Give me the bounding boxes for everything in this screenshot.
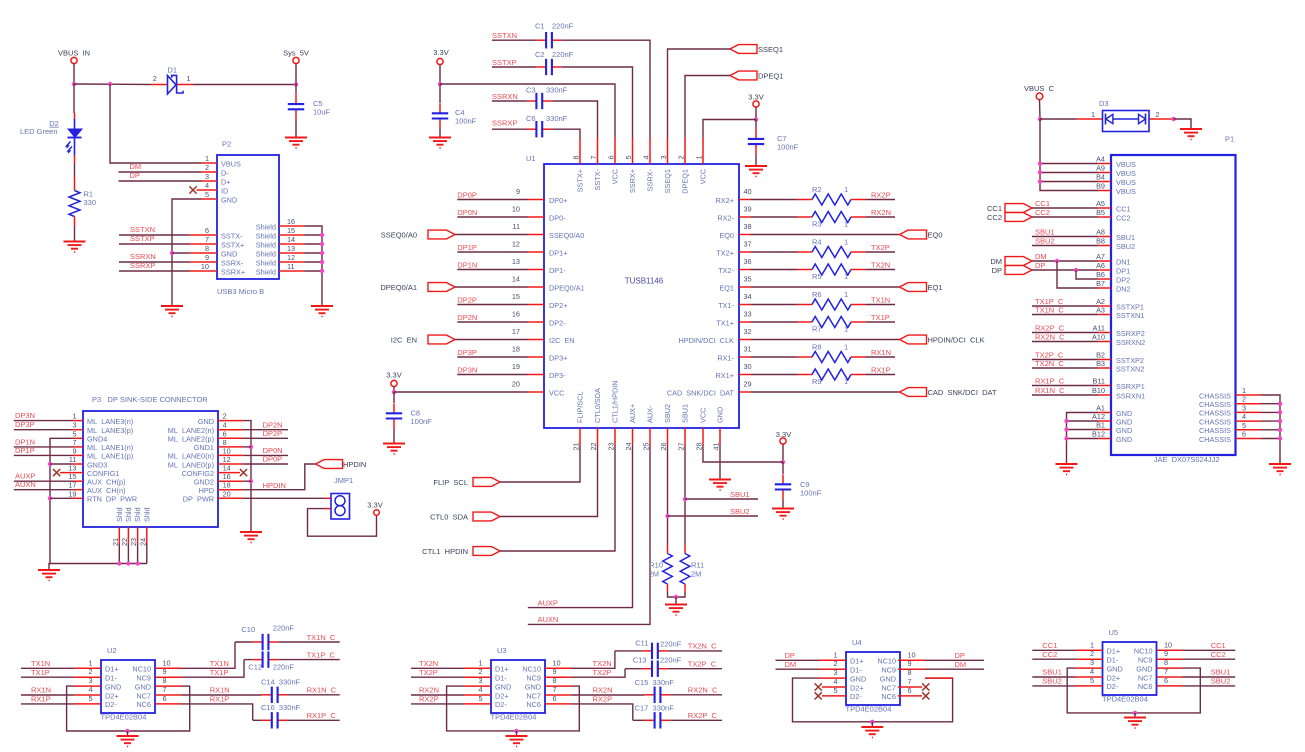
wire bbox=[500, 445, 580, 482]
svg-text:Shld: Shld bbox=[124, 507, 133, 522]
power port VBUS_C bbox=[1036, 93, 1043, 100]
wire bbox=[866, 199, 895, 201]
wire bbox=[755, 154, 757, 166]
svg-text:U2: U2 bbox=[107, 646, 117, 655]
wire bbox=[49, 564, 50, 571]
wire bbox=[1067, 420, 1099, 422]
svg-text:CC2: CC2 bbox=[1042, 650, 1057, 659]
svg-text:B12: B12 bbox=[1092, 430, 1105, 439]
svg-text:A6: A6 bbox=[1096, 261, 1105, 270]
wire bbox=[411, 694, 464, 696]
junction bbox=[72, 82, 76, 86]
svg-text:NC6: NC6 bbox=[881, 692, 896, 701]
P2 pin 11 Shield bbox=[279, 270, 304, 272]
svg-text:B6: B6 bbox=[1096, 270, 1105, 279]
P1 pin B11 SSRXP1 bbox=[1098, 385, 1111, 387]
wire bbox=[751, 339, 900, 341]
svg-text:11: 11 bbox=[287, 262, 295, 271]
svg-text:15: 15 bbox=[287, 226, 295, 235]
resistor R5 bbox=[797, 269, 812, 271]
svg-text:D1-: D1- bbox=[105, 674, 117, 683]
svg-text:35: 35 bbox=[744, 275, 752, 284]
svg-text:SSTXP: SSTXP bbox=[130, 234, 155, 243]
svg-text:VBUS: VBUS bbox=[1116, 169, 1136, 178]
wire P2 GND bbox=[172, 199, 202, 306]
flag HPDIN bbox=[316, 460, 343, 469]
wire bbox=[193, 84, 296, 86]
pin stub bbox=[545, 667, 572, 669]
wire bbox=[1032, 245, 1098, 247]
pin stub bbox=[464, 667, 491, 669]
svg-text:NC7: NC7 bbox=[1138, 673, 1153, 682]
svg-text:HPDIN: HPDIN bbox=[263, 481, 286, 490]
junction bbox=[125, 729, 129, 733]
svg-text:TX1P: TX1P bbox=[31, 668, 50, 677]
svg-text:R5: R5 bbox=[812, 272, 822, 281]
wire bbox=[925, 668, 984, 670]
svg-text:R3: R3 bbox=[812, 220, 822, 229]
junction bbox=[48, 462, 52, 466]
svg-text:RX1N: RX1N bbox=[210, 686, 230, 695]
svg-text:NC6: NC6 bbox=[136, 700, 151, 709]
U1 pin 29 CAD SNK/DCI DAT (right) bbox=[739, 391, 751, 393]
svg-text:SSEQ1: SSEQ1 bbox=[758, 45, 783, 54]
svg-text:C6: C6 bbox=[526, 114, 536, 123]
wire bbox=[1134, 713, 1136, 718]
flag DPEQ1 bbox=[730, 71, 757, 80]
wire P3 gnd bus bbox=[50, 438, 147, 563]
svg-text:Shield: Shield bbox=[256, 258, 276, 267]
svg-text:CTL1 HPDIN: CTL1 HPDIN bbox=[422, 547, 468, 556]
pin stub bbox=[1076, 685, 1103, 687]
wire U2 gnd bbox=[67, 686, 190, 731]
wire SSTXN bbox=[119, 234, 190, 236]
svg-text:34: 34 bbox=[744, 292, 752, 301]
ground bbox=[161, 305, 183, 307]
svg-text:RX2+: RX2+ bbox=[716, 196, 734, 205]
ground bbox=[1124, 717, 1146, 719]
svg-text:DP3N: DP3N bbox=[15, 411, 35, 420]
P3 pin 10 ML LANE0(n) bbox=[218, 454, 244, 456]
svg-text:RX1P: RX1P bbox=[210, 695, 230, 704]
wire bbox=[1040, 163, 1098, 165]
U1 pin 13 DP1- (left) bbox=[528, 269, 545, 271]
junction bbox=[1278, 410, 1282, 414]
wire bbox=[572, 651, 615, 668]
svg-text:1: 1 bbox=[844, 238, 848, 247]
P1 pin 5 CHASSIS bbox=[1236, 429, 1262, 431]
svg-text:SBU1: SBU1 bbox=[1116, 233, 1135, 242]
svg-text:RTN DP PWR: RTN DP PWR bbox=[87, 495, 137, 504]
wire bbox=[308, 509, 377, 537]
wire bbox=[776, 668, 820, 670]
P2 pin 14 Shield bbox=[279, 243, 304, 245]
svg-text:4: 4 bbox=[642, 155, 651, 159]
pin stub bbox=[464, 694, 491, 696]
wire bbox=[925, 659, 984, 661]
connector P3 outline bbox=[83, 411, 218, 527]
svg-text:6: 6 bbox=[1242, 430, 1246, 439]
wire bbox=[1032, 332, 1098, 334]
wire U4 gnd bbox=[793, 678, 953, 722]
svg-text:1: 1 bbox=[88, 658, 92, 667]
ground bbox=[383, 443, 405, 445]
wire bbox=[1032, 685, 1075, 687]
wire bbox=[295, 119, 297, 137]
svg-text:DP2N: DP2N bbox=[457, 313, 477, 322]
P1 pin 2 CHASSIS bbox=[1236, 403, 1262, 405]
svg-text:EQ0: EQ0 bbox=[928, 230, 943, 239]
wire bbox=[295, 64, 297, 85]
P3 pin 16 GND2 bbox=[218, 480, 244, 482]
svg-text:D1+: D1+ bbox=[105, 665, 119, 674]
P1 pin B1 GND bbox=[1098, 429, 1111, 431]
svg-text:DM: DM bbox=[130, 162, 142, 171]
wire SSTXP bbox=[119, 243, 190, 245]
pin stub bbox=[1076, 649, 1103, 651]
wire bbox=[457, 304, 527, 306]
P2 pin 16 Shield bbox=[279, 225, 304, 227]
junction bbox=[1038, 117, 1042, 121]
pin stub bbox=[74, 667, 101, 669]
wire VBUS bus bbox=[1040, 119, 1098, 191]
pin stub bbox=[1076, 676, 1103, 678]
junction bbox=[320, 251, 324, 255]
svg-text:DP0P: DP0P bbox=[457, 190, 477, 199]
wire shield bus bbox=[304, 226, 322, 306]
svg-text:TX2N: TX2N bbox=[871, 260, 890, 269]
pin stub bbox=[155, 667, 182, 669]
wire bbox=[866, 356, 895, 358]
U1 pin 11 SSEQ0/A0 (left) bbox=[528, 234, 545, 236]
capacitor C12 bbox=[244, 659, 253, 661]
svg-text:DP PWR: DP PWR bbox=[183, 495, 214, 504]
P1 pin A1 GND bbox=[1098, 412, 1111, 414]
wire bbox=[295, 85, 297, 95]
pin stub bbox=[1157, 685, 1183, 687]
wire bbox=[668, 668, 722, 670]
no-connect X U4 pin 4 bbox=[815, 683, 822, 690]
wire bbox=[457, 356, 527, 358]
svg-text:SBU2: SBU2 bbox=[730, 507, 750, 516]
svg-text:USB3 Micro B: USB3 Micro B bbox=[217, 287, 264, 296]
wire bbox=[457, 321, 527, 323]
svg-text:15: 15 bbox=[512, 292, 520, 301]
svg-text:7: 7 bbox=[589, 155, 598, 159]
svg-text:30: 30 bbox=[744, 362, 752, 371]
svg-text:3: 3 bbox=[205, 172, 209, 181]
svg-text:NC9: NC9 bbox=[526, 674, 541, 683]
svg-text:GND: GND bbox=[135, 682, 151, 691]
svg-text:CC2: CC2 bbox=[1211, 650, 1226, 659]
svg-text:13: 13 bbox=[512, 257, 520, 266]
U1 pin 12 DP1+ (left) bbox=[528, 251, 545, 253]
svg-text:R7: R7 bbox=[812, 325, 822, 334]
junction bbox=[1278, 436, 1282, 440]
wire bbox=[1032, 305, 1098, 307]
P1 pin 1 CHASSIS bbox=[1236, 394, 1262, 396]
pin stub bbox=[819, 659, 846, 661]
svg-text:EQ0: EQ0 bbox=[719, 231, 734, 240]
svg-text:TUSB1146: TUSB1146 bbox=[625, 277, 664, 286]
svg-text:B8: B8 bbox=[1096, 237, 1105, 246]
svg-text:25: 25 bbox=[642, 442, 651, 450]
capacitor C7 bbox=[755, 129, 757, 139]
svg-text:CAD SNK/DCI DAT: CAD SNK/DCI DAT bbox=[928, 388, 997, 397]
ground bbox=[38, 569, 60, 571]
wire bbox=[21, 703, 74, 705]
wire bbox=[394, 391, 528, 393]
svg-text:P2: P2 bbox=[222, 140, 231, 149]
wire bbox=[1261, 429, 1280, 431]
svg-text:Shld: Shld bbox=[115, 507, 124, 522]
junction bbox=[665, 514, 669, 518]
P1 pin B10 SSRXN1 bbox=[1098, 394, 1111, 396]
P1 pin A5 CC1 bbox=[1098, 207, 1111, 209]
pin stub bbox=[898, 668, 925, 670]
svg-text:VCC: VCC bbox=[699, 408, 708, 423]
wire bbox=[146, 544, 148, 564]
svg-text:TX2N: TX2N bbox=[419, 659, 438, 668]
svg-text:P1: P1 bbox=[1225, 135, 1234, 144]
svg-text:8: 8 bbox=[205, 244, 209, 253]
U1 pin 23 CTL1/HPDIN (bottom) bbox=[614, 428, 616, 445]
pin stub bbox=[925, 677, 953, 679]
P1 pin A9 VBUS bbox=[1098, 172, 1111, 174]
wire bbox=[500, 445, 598, 517]
svg-text:D2-: D2- bbox=[495, 700, 507, 709]
U1 pin 4 SSRX- (top) bbox=[649, 138, 651, 164]
svg-text:3: 3 bbox=[1242, 403, 1246, 412]
pin stub bbox=[1157, 649, 1183, 651]
svg-text:1: 1 bbox=[844, 220, 848, 229]
U1 pin 37 TX2+ (right) bbox=[739, 251, 751, 253]
wire bbox=[492, 66, 536, 68]
svg-text:1: 1 bbox=[1090, 640, 1094, 649]
svg-text:CHASSIS: CHASSIS bbox=[1199, 426, 1231, 435]
P3 pin 5 GND4 bbox=[73, 437, 83, 439]
svg-text:GND: GND bbox=[198, 417, 214, 426]
wire bbox=[14, 480, 73, 482]
svg-text:10uF: 10uF bbox=[313, 108, 331, 117]
pin stub bbox=[545, 685, 572, 687]
wire bbox=[572, 704, 633, 720]
svg-text:RX1P C: RX1P C bbox=[307, 711, 337, 720]
wire bbox=[74, 164, 76, 178]
wire bbox=[244, 437, 288, 439]
wire bbox=[500, 445, 615, 551]
svg-text:DP2+: DP2+ bbox=[549, 301, 567, 310]
svg-text:LED Green: LED Green bbox=[20, 127, 58, 136]
svg-text:CC1: CC1 bbox=[1211, 641, 1226, 650]
svg-text:RX1P: RX1P bbox=[871, 365, 891, 374]
svg-text:NC10: NC10 bbox=[877, 657, 896, 666]
svg-text:TX1P: TX1P bbox=[871, 313, 890, 322]
svg-text:DM: DM bbox=[955, 660, 967, 669]
wire bbox=[675, 597, 677, 605]
svg-text:SBU2: SBU2 bbox=[1035, 236, 1055, 245]
svg-text:DP2P: DP2P bbox=[457, 295, 477, 304]
U1 pin 22 CTL0/SDA (bottom) bbox=[597, 428, 599, 445]
wire bbox=[552, 129, 580, 138]
svg-text:23: 23 bbox=[129, 538, 138, 546]
svg-text:B5: B5 bbox=[1096, 208, 1105, 217]
svg-text:41: 41 bbox=[712, 442, 721, 450]
P2 pin 12 Shield bbox=[279, 261, 304, 263]
junction bbox=[683, 497, 687, 501]
svg-text:U3: U3 bbox=[497, 646, 507, 655]
P3 pin 15 AUX CH(p) bbox=[73, 480, 83, 482]
svg-text:2: 2 bbox=[1242, 395, 1246, 404]
svg-text:VCC: VCC bbox=[699, 169, 708, 184]
svg-text:D1+: D1+ bbox=[495, 665, 509, 674]
svg-text:EQ1: EQ1 bbox=[719, 283, 734, 292]
resistor R9 bbox=[797, 374, 812, 376]
svg-text:SSRX-: SSRX- bbox=[221, 258, 244, 267]
P2 pin 5 GND bbox=[202, 198, 218, 200]
svg-text:10: 10 bbox=[553, 658, 561, 667]
svg-text:SSRXN2: SSRXN2 bbox=[1116, 338, 1145, 347]
svg-text:TPD4E02B04: TPD4E02B04 bbox=[846, 705, 892, 714]
svg-text:3: 3 bbox=[659, 155, 668, 159]
svg-text:RX1+: RX1+ bbox=[716, 371, 734, 380]
P3 pin 7 ML LANE1(n) bbox=[73, 446, 83, 448]
U1 pin 39 RX2- (right) bbox=[739, 216, 751, 218]
svg-text:Shield: Shield bbox=[256, 222, 276, 231]
svg-text:Shield: Shield bbox=[256, 267, 276, 276]
svg-text:GND: GND bbox=[495, 682, 511, 691]
svg-text:RX1N C: RX1N C bbox=[1035, 386, 1065, 395]
svg-text:3.3V: 3.3V bbox=[367, 501, 382, 510]
svg-text:I2C EN: I2C EN bbox=[391, 335, 417, 344]
P1 pin B7 DN2 bbox=[1098, 287, 1111, 289]
wire bbox=[411, 703, 464, 705]
capacitor C16 bbox=[253, 719, 262, 721]
svg-text:22: 22 bbox=[589, 442, 598, 450]
junction bbox=[320, 260, 324, 264]
svg-text:DPEQ1: DPEQ1 bbox=[758, 71, 783, 80]
svg-text:CC1: CC1 bbox=[1035, 199, 1050, 208]
svg-text:GND: GND bbox=[221, 195, 237, 204]
P1 pin A11 SSRXP2 bbox=[1098, 332, 1111, 334]
svg-text:12: 12 bbox=[287, 253, 295, 262]
svg-text:TX1N: TX1N bbox=[31, 659, 50, 668]
junction bbox=[108, 82, 112, 86]
wire bbox=[244, 463, 288, 465]
junction bbox=[754, 117, 758, 121]
wire bbox=[244, 464, 316, 490]
U1 pin 33 TX1+ (right) bbox=[739, 321, 751, 323]
svg-text:RX2P C: RX2P C bbox=[1035, 323, 1065, 332]
svg-text:SSRXP1: SSRXP1 bbox=[1116, 382, 1145, 391]
svg-text:TX2P C: TX2P C bbox=[688, 660, 717, 669]
wire bbox=[278, 659, 339, 661]
svg-text:TX1P C: TX1P C bbox=[307, 650, 336, 659]
P3 pin 20 DP PWR bbox=[218, 497, 244, 499]
svg-text:DP2: DP2 bbox=[1116, 275, 1130, 284]
svg-text:D2+: D2+ bbox=[850, 683, 864, 692]
svg-text:NC6: NC6 bbox=[1138, 682, 1153, 691]
ground bbox=[772, 508, 794, 510]
capacitor C13 bbox=[625, 668, 642, 670]
pin stub bbox=[545, 703, 572, 705]
svg-text:3.3V: 3.3V bbox=[748, 93, 763, 102]
U1 pin 28 VCC (bottom) bbox=[702, 428, 704, 445]
svg-text:R10: R10 bbox=[649, 561, 663, 570]
pin stub bbox=[545, 694, 572, 696]
svg-text:CTL0/SDA: CTL0/SDA bbox=[593, 388, 602, 423]
svg-text:C3: C3 bbox=[526, 85, 536, 94]
svg-text:14: 14 bbox=[287, 235, 295, 244]
junction bbox=[1064, 436, 1068, 440]
resistor R3 bbox=[797, 216, 812, 218]
svg-text:1: 1 bbox=[1091, 110, 1095, 119]
P3 pin 11 GND3 bbox=[73, 463, 83, 465]
svg-text:TX1+: TX1+ bbox=[716, 318, 734, 327]
P1 pin A2 SSTXP1 bbox=[1098, 305, 1111, 307]
svg-text:VBUS: VBUS bbox=[221, 159, 241, 168]
svg-text:SSRXN: SSRXN bbox=[130, 252, 156, 261]
svg-text:RX2-: RX2- bbox=[717, 213, 734, 222]
svg-text:DP3P: DP3P bbox=[457, 348, 477, 357]
wire bbox=[182, 704, 253, 720]
svg-text:4: 4 bbox=[205, 181, 209, 190]
flag CAD SNK/DCI DAT bbox=[900, 388, 927, 397]
svg-text:SSEQ1: SSEQ1 bbox=[663, 169, 672, 193]
svg-text:C2: C2 bbox=[535, 50, 545, 59]
wire bbox=[127, 731, 129, 736]
svg-text:Shield: Shield bbox=[256, 231, 276, 240]
svg-text:D3: D3 bbox=[1099, 99, 1109, 108]
svg-text:DP3-: DP3- bbox=[549, 371, 566, 380]
junction bbox=[1038, 170, 1042, 174]
U1 pin 40 RX2+ (right) bbox=[739, 199, 751, 201]
diode D3 bbox=[1077, 118, 1103, 120]
wire P3 gnd bus right bbox=[244, 421, 251, 532]
power port 3.3V bbox=[780, 438, 786, 444]
svg-text:D1-: D1- bbox=[1107, 656, 1119, 665]
U1 pin 30 RX1+ (right) bbox=[739, 374, 751, 376]
P1 pin A3 SSTXN1 bbox=[1098, 314, 1111, 316]
U1 pin 17 I2C EN (left) bbox=[528, 339, 545, 341]
ground bbox=[1180, 128, 1202, 130]
svg-text:SSEQ0/A0: SSEQ0/A0 bbox=[381, 230, 417, 239]
svg-text:AUXP: AUXP bbox=[538, 599, 558, 608]
P1 pin A12 GND bbox=[1098, 420, 1111, 422]
P3 pin 14 CONFIG2 bbox=[218, 472, 240, 474]
wire bbox=[703, 120, 756, 139]
wire bbox=[1261, 411, 1280, 413]
svg-text:23: 23 bbox=[607, 442, 616, 450]
junction bbox=[1055, 259, 1059, 263]
wire U5 gnd bbox=[1067, 668, 1200, 713]
svg-text:EQ1: EQ1 bbox=[928, 283, 943, 292]
wire bbox=[1040, 118, 1077, 120]
svg-text:TX1N C: TX1N C bbox=[1035, 305, 1064, 314]
svg-text:D2+: D2+ bbox=[495, 691, 509, 700]
svg-text:2: 2 bbox=[677, 155, 686, 159]
svg-text:CTL1/HPDIN: CTL1/HPDIN bbox=[611, 380, 620, 423]
svg-text:Sys 5V: Sys 5V bbox=[283, 49, 309, 58]
svg-text:GND: GND bbox=[850, 674, 866, 683]
wire bbox=[14, 489, 73, 491]
wire bbox=[393, 387, 395, 392]
LED D2 bbox=[74, 113, 76, 120]
svg-text:220nF: 220nF bbox=[660, 639, 682, 648]
P2 pin 9 SSRX- bbox=[190, 261, 218, 263]
wire SBU1 bbox=[685, 498, 758, 500]
junction bbox=[1064, 427, 1068, 431]
